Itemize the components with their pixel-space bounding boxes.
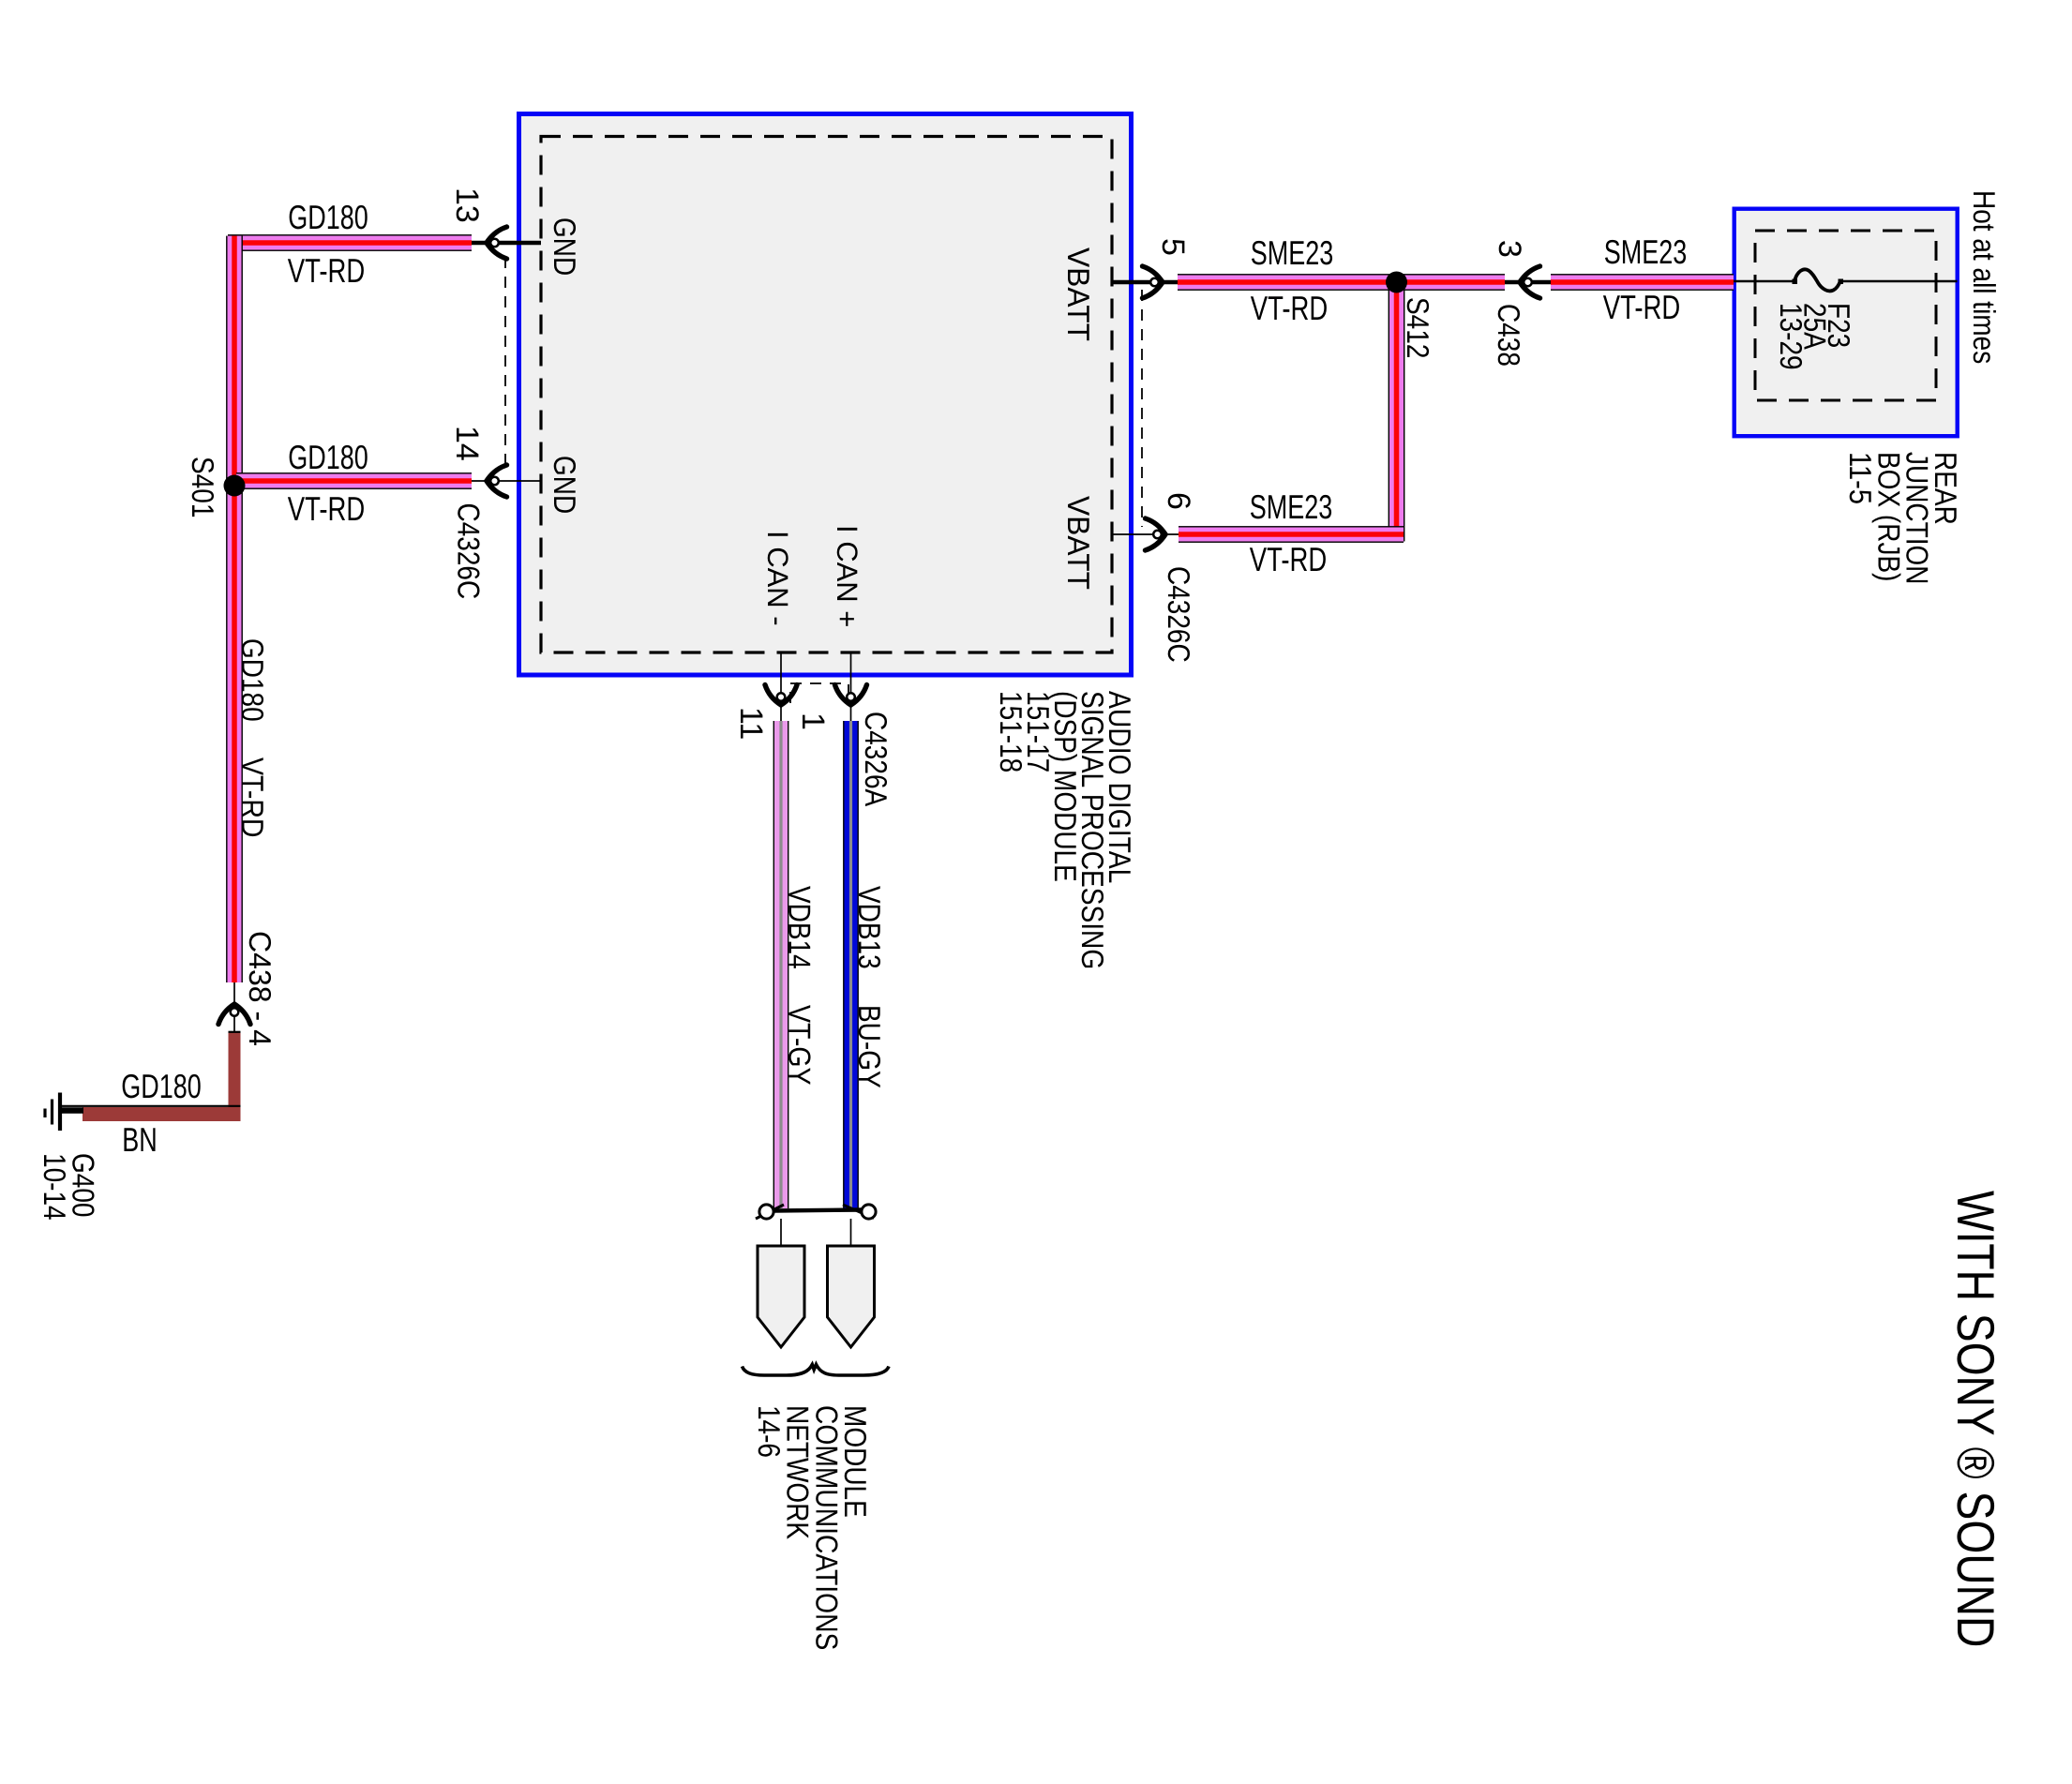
svg-text:GND: GND [548, 217, 582, 276]
svg-text:VT-RD: VT-RD [288, 489, 366, 528]
svg-text:C4326C: C4326C [1162, 566, 1196, 663]
svg-text:Hot at all times: Hot at all times [1967, 190, 2002, 364]
svg-text:C4326C: C4326C [452, 503, 487, 600]
svg-text:G40010-14: G40010-14 [38, 1153, 100, 1221]
svg-text:WITH SONY ® SOUND: WITH SONY ® SOUND [1946, 1191, 2005, 1647]
svg-text:SME23: SME23 [1604, 232, 1688, 271]
svg-text:C438: C438 [1492, 304, 1526, 367]
svg-text:VT-RD: VT-RD [1603, 288, 1681, 326]
svg-text:VT-RD: VT-RD [1250, 540, 1328, 578]
svg-text:SME23: SME23 [1250, 487, 1333, 526]
svg-text:VBATT: VBATT [1061, 247, 1096, 341]
svg-text:C4326A: C4326A [859, 712, 893, 806]
svg-text:13: 13 [449, 187, 485, 223]
svg-text:GD180: GD180 [288, 438, 368, 476]
svg-text:C438 - 4: C438 - 4 [243, 931, 278, 1046]
svg-text:GND: GND [548, 456, 582, 514]
svg-text:VT-RD: VT-RD [235, 757, 270, 838]
svg-text:SME23: SME23 [1251, 233, 1334, 272]
svg-text:5: 5 [1155, 238, 1191, 256]
svg-text:GD180: GD180 [235, 638, 270, 722]
svg-text:GD180: GD180 [121, 1067, 202, 1105]
svg-text:1: 1 [795, 712, 831, 730]
svg-text:S412: S412 [1401, 297, 1435, 358]
svg-text:S401: S401 [186, 457, 220, 517]
svg-text:BN: BN [122, 1120, 158, 1159]
svg-text:VDB13: VDB13 [852, 886, 887, 969]
svg-text:I CAN -: I CAN - [761, 531, 794, 626]
svg-text:GD180: GD180 [288, 198, 368, 236]
svg-text:I CAN +: I CAN + [831, 525, 863, 627]
svg-text:6: 6 [1161, 492, 1196, 510]
svg-text:14: 14 [449, 426, 485, 461]
svg-text:11: 11 [733, 707, 769, 740]
svg-text:VBATT: VBATT [1061, 496, 1096, 590]
svg-text:BU-GY: BU-GY [852, 1005, 887, 1088]
svg-text:3: 3 [1492, 240, 1527, 258]
svg-text:VT-RD: VT-RD [1251, 289, 1329, 327]
svg-text:VDB14: VDB14 [783, 886, 818, 969]
svg-text:VT-RD: VT-RD [288, 251, 366, 290]
svg-text:VT-GY: VT-GY [783, 1005, 818, 1086]
